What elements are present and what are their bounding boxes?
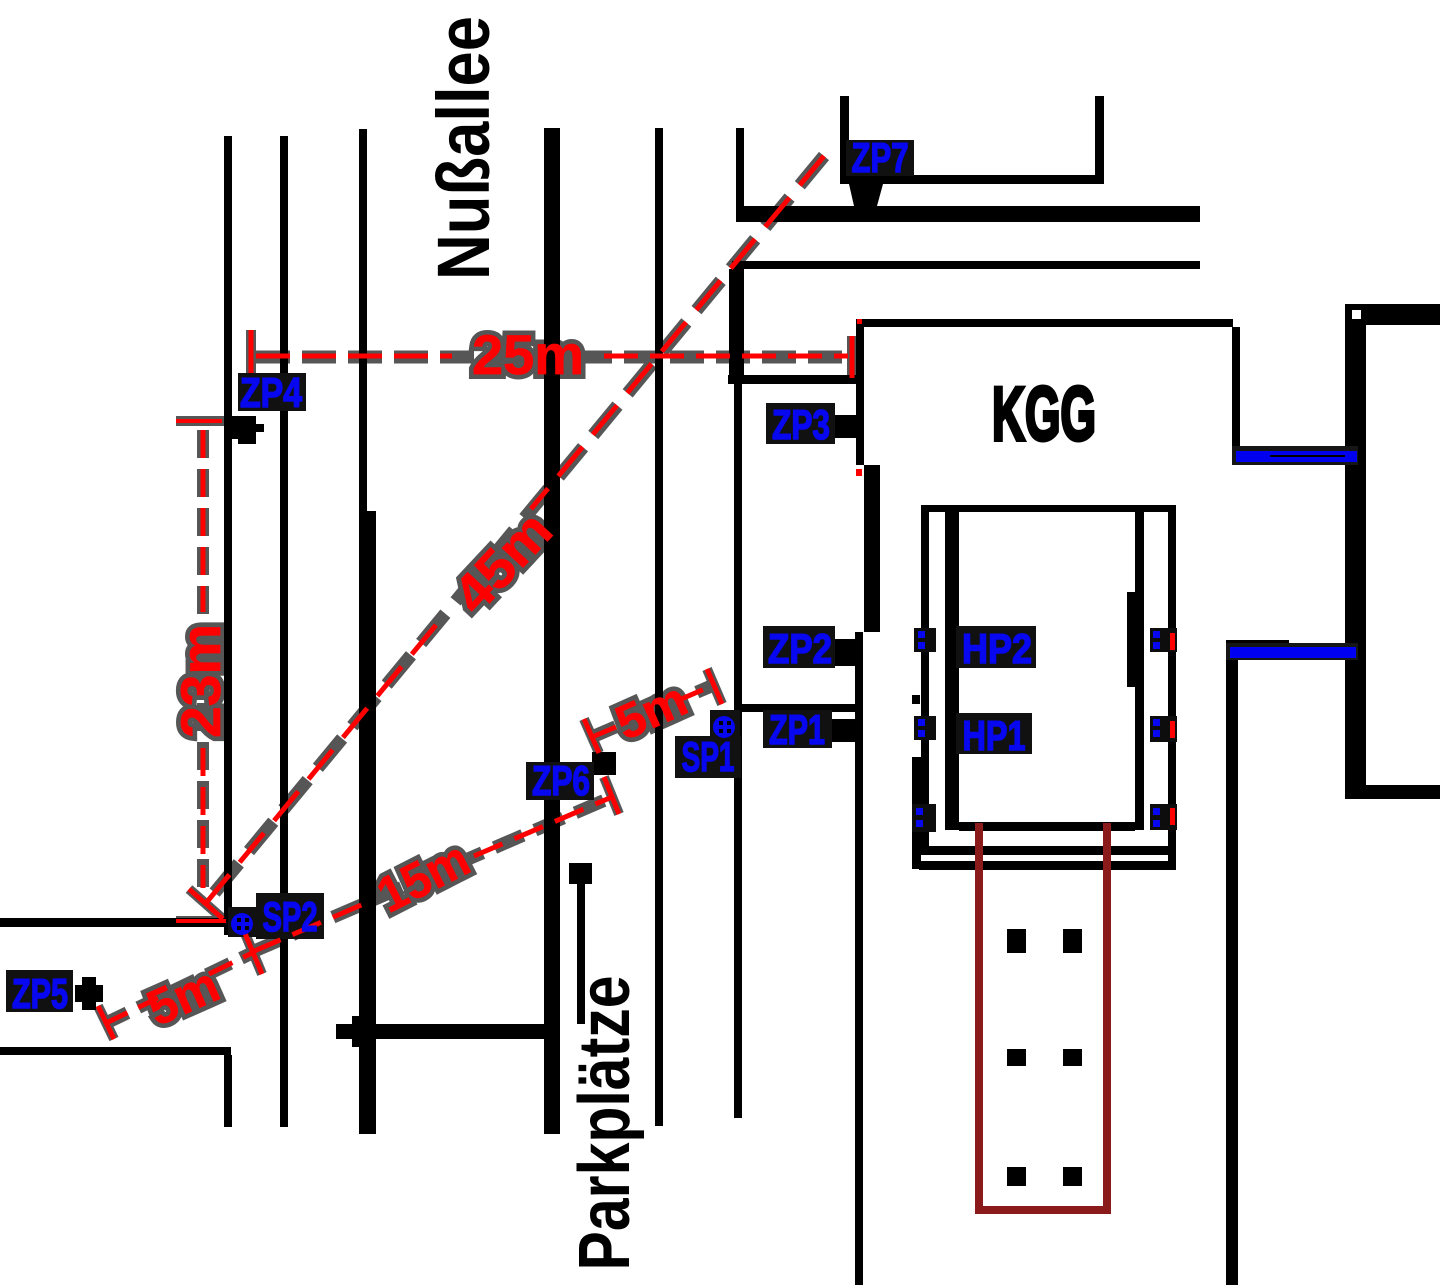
- pillar square 6: [1063, 1167, 1082, 1186]
- marker point ZP1: [831, 719, 855, 742]
- box ZP4: [238, 373, 306, 411]
- maroon court left line: [975, 823, 983, 1214]
- survey point SP1: [713, 716, 735, 738]
- tower left pilaster: [912, 757, 921, 869]
- street horizontal mid thick: [336, 1024, 544, 1039]
- blue dots HP1 right: [1153, 719, 1160, 737]
- dim 5m a line right part: [209, 953, 252, 974]
- svg-text:25m: 25m: [472, 323, 584, 386]
- right building top: [1345, 304, 1440, 325]
- box SP2: [256, 893, 324, 939]
- lamp symbol head: [569, 863, 592, 884]
- tower inner right wall: [1135, 512, 1144, 830]
- red tick HP2 right: [1170, 633, 1175, 650]
- KGG south wing wall: [735, 704, 857, 712]
- wall tick HP2 left: [914, 628, 936, 652]
- pillar square 3: [1007, 1049, 1026, 1066]
- KGG top wall: [856, 319, 1233, 327]
- halo 25m dim line: [256, 351, 848, 364]
- dim 23m bottom tick: [189, 889, 223, 919]
- marker point ZP7: [849, 184, 883, 222]
- svg-text:ZP6: ZP6: [532, 757, 590, 804]
- pillar square 2: [1063, 929, 1082, 953]
- box ZP3: [766, 403, 835, 444]
- halo 5m dim line (ZP6-SP1): [592, 684, 716, 737]
- wall tick HP2 right: [1150, 628, 1177, 652]
- KGG left wall bump: [864, 465, 880, 632]
- SW annex horizontal: [728, 375, 857, 384]
- dim 25m line left part: [256, 354, 452, 359]
- maroon court bottom line: [975, 1206, 1111, 1214]
- dim 5m b tick at SP1: [707, 669, 722, 704]
- red tick lower right: [1170, 808, 1175, 825]
- tower outer top wall: [921, 505, 1176, 512]
- right building white notch: [1352, 310, 1361, 319]
- dim 5m b line left part: [592, 722, 628, 737]
- tower left tab: [912, 695, 920, 704]
- pillar square 1: [1007, 929, 1026, 953]
- svg-text:Parkplätze: Parkplätze: [565, 976, 645, 1271]
- tower inner right bump: [1127, 592, 1135, 687]
- survey point SP2: [231, 913, 253, 935]
- tower inner bottom wall: [959, 822, 1135, 831]
- dim 25m left tick: [249, 330, 254, 373]
- halo 5m dim line (ZP5-SP2): [104, 953, 252, 1024]
- tower outer right wall: [1168, 505, 1176, 870]
- box ZP5: [6, 970, 73, 1012]
- dim 15m tick at ZP6: [604, 777, 619, 814]
- svg-text:ZP4: ZP4: [240, 369, 303, 416]
- upper-left building thick horizontal: [736, 206, 1200, 222]
- box ZP7: [846, 140, 914, 176]
- svg-text:HP1: HP1: [963, 712, 1026, 759]
- right building bottom: [1345, 785, 1440, 799]
- tower inner left wall: [945, 512, 959, 830]
- ZP7 court bottom horizontal: [840, 175, 1104, 184]
- marker point ZP6: [592, 752, 616, 775]
- dim 23m line lower part: [201, 748, 206, 888]
- label background boxes (dark): [6, 140, 1036, 1012]
- halo 15m dim line: [252, 797, 612, 952]
- KGG left wall upper: [856, 327, 864, 465]
- wall tick lower left: [912, 804, 936, 832]
- red dot KGG top corner: [857, 319, 862, 324]
- blue dots lower right: [1153, 808, 1160, 827]
- tower outer left wall: [921, 505, 929, 847]
- dim 5m a tick at ZP5: [98, 1006, 114, 1039]
- halo 23m dim line: [176, 416, 226, 426]
- blue dots HP1 left: [918, 719, 925, 737]
- dim 15m line left part: [252, 900, 373, 952]
- KGG left wall lower: [855, 632, 863, 1285]
- box HP1: [956, 713, 1032, 754]
- svg-text:23m: 23m: [169, 624, 232, 738]
- svg-text:ZP7: ZP7: [852, 134, 909, 181]
- SW annex vertical: [729, 269, 744, 384]
- wall tick HP1 left: [914, 716, 936, 740]
- wall tick lower right: [1150, 804, 1177, 830]
- east lower wall horizontal stub: [1226, 640, 1289, 647]
- dim 5m b tick at ZP6: [584, 719, 599, 753]
- street line B: [280, 136, 288, 1127]
- ZP7 court right vertical: [1095, 96, 1104, 184]
- box ZP1: [763, 710, 832, 748]
- dim 25m line right part: [604, 354, 848, 359]
- svg-text:Nußallee: Nußallee: [422, 16, 505, 280]
- tower outer bottom wall 1: [921, 846, 1169, 855]
- halo 45m dim line: [206, 156, 824, 903]
- dim 23m bottom witness: [176, 919, 226, 923]
- red tick HP1 right: [1170, 721, 1175, 738]
- street line A: [224, 136, 232, 935]
- ZP7 court left vertical: [840, 96, 849, 184]
- street horizontal SW 1: [0, 918, 226, 927]
- blue dots lower left: [916, 808, 923, 827]
- marker point ZP2: [832, 639, 855, 666]
- svg-text:ZP3: ZP3: [772, 401, 830, 448]
- maroon court right line: [1103, 823, 1111, 1214]
- dim 5m a line left part: [104, 998, 158, 1024]
- marker point ZP3: [832, 415, 856, 438]
- wall tick HP1 right: [1150, 716, 1177, 742]
- dim 45m line upper part: [531, 156, 824, 509]
- street line C lower (thick): [359, 511, 376, 1134]
- pillar square 4: [1063, 1049, 1082, 1066]
- svg-text:SP1: SP1: [682, 733, 735, 780]
- dim 15m tick at SP2: [244, 931, 262, 974]
- dim 23m line upper part: [201, 430, 206, 612]
- blue door strip lower: [1226, 643, 1358, 660]
- street line E: [655, 128, 663, 1126]
- right building left wall: [1345, 304, 1366, 785]
- box HP2: [956, 626, 1036, 668]
- svg-text:SP2: SP2: [263, 893, 318, 940]
- dim 5m b line right part: [679, 684, 716, 700]
- east lower wall vertical: [1226, 654, 1238, 1285]
- street line D: [544, 128, 560, 1134]
- svg-text:ZP5: ZP5: [12, 970, 68, 1017]
- marker point ZP4: [224, 416, 264, 444]
- KGG right wall: [1232, 327, 1240, 448]
- street tab at C: [352, 1016, 360, 1047]
- upper-left building west vertical: [736, 128, 744, 222]
- blue dots HP2 right: [1153, 631, 1160, 649]
- tower outer bottom wall 2: [919, 861, 1174, 870]
- red dot KGG wall jog: [856, 469, 862, 476]
- dim 25m right tick: [850, 336, 855, 378]
- svg-text:KGG: KGG: [992, 372, 1096, 457]
- dim 15m line right part: [474, 797, 612, 856]
- street line C upper: [359, 129, 367, 511]
- box ZP6: [526, 762, 594, 800]
- svg-text:HP2: HP2: [962, 625, 1032, 672]
- dim 23m top witness: [176, 419, 222, 423]
- pillar square 5: [1007, 1167, 1026, 1186]
- box SP1: [675, 736, 741, 778]
- marker point ZP5: [75, 985, 103, 1002]
- svg-text:ZP2: ZP2: [768, 625, 832, 672]
- lamp symbol pole: [577, 884, 585, 1024]
- blue dots HP2 left: [918, 631, 925, 649]
- street horizontal SW 2: [0, 1047, 231, 1055]
- upper-left building thin horizontal: [732, 261, 1200, 269]
- street line F: [734, 261, 742, 1118]
- street corner vertical SW: [224, 1055, 232, 1127]
- blue door strip upper: [1232, 446, 1358, 465]
- box ZP2: [763, 626, 835, 668]
- svg-text:ZP1: ZP1: [769, 706, 825, 753]
- dim 45m line lower part: [206, 625, 436, 903]
